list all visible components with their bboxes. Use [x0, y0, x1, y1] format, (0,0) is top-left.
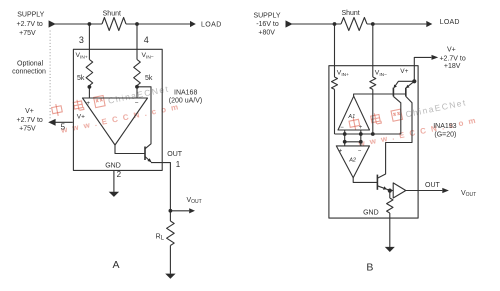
- svg-text:+80V: +80V: [258, 29, 275, 36]
- svg-text:V+: V+: [77, 114, 85, 121]
- svg-text:+: +: [359, 125, 363, 131]
- svg-text:+2.7V to: +2.7V to: [439, 55, 465, 62]
- svg-text:A1: A1: [347, 114, 355, 120]
- svg-text:A: A: [112, 259, 119, 271]
- svg-text:GND: GND: [363, 210, 379, 217]
- svg-text:connection: connection: [12, 69, 46, 76]
- svg-text:VOUT: VOUT: [187, 197, 202, 205]
- svg-text:OUT: OUT: [167, 151, 183, 158]
- svg-text:VIN+: VIN+: [337, 69, 349, 78]
- svg-text:LOAD: LOAD: [440, 19, 460, 26]
- svg-text:(G=20): (G=20): [434, 131, 456, 138]
- svg-text:Shunt: Shunt: [103, 10, 121, 17]
- svg-text:−: −: [340, 125, 344, 131]
- svg-text:−: −: [135, 100, 139, 107]
- svg-text:OUT: OUT: [425, 182, 441, 189]
- svg-text:+2.7V to: +2.7V to: [17, 117, 43, 124]
- svg-text:+: +: [339, 148, 343, 154]
- svg-text:SUPPLY: SUPPLY: [253, 12, 280, 19]
- svg-text:(200 uA/V): (200 uA/V): [169, 97, 202, 104]
- svg-text:−: −: [358, 148, 362, 154]
- svg-text:5k: 5k: [145, 75, 153, 82]
- svg-text:V+: V+: [400, 68, 408, 75]
- svg-text:+18V: +18V: [444, 63, 461, 70]
- svg-text:INA193: INA193: [433, 123, 456, 130]
- svg-text:+2.7V to: +2.7V to: [17, 21, 43, 28]
- svg-text:4: 4: [144, 35, 149, 45]
- svg-text:Shunt: Shunt: [341, 10, 359, 17]
- svg-text:5: 5: [61, 123, 66, 132]
- svg-text:2: 2: [117, 170, 122, 179]
- svg-text:Optional: Optional: [17, 60, 44, 67]
- svg-text:INA168: INA168: [174, 89, 197, 96]
- svg-text:V+: V+: [447, 46, 456, 53]
- svg-text:VIN−: VIN−: [375, 69, 387, 78]
- svg-text:RL: RL: [156, 233, 165, 241]
- svg-text:-16V to: -16V to: [256, 21, 279, 28]
- svg-text:GND: GND: [105, 162, 121, 169]
- svg-text:1: 1: [176, 160, 181, 169]
- svg-text:5k: 5k: [77, 75, 85, 82]
- svg-text:+75V: +75V: [19, 125, 36, 132]
- svg-text:V+: V+: [25, 108, 34, 115]
- svg-text:+75V: +75V: [19, 30, 36, 37]
- svg-text:3: 3: [79, 35, 84, 45]
- svg-text:+: +: [86, 100, 90, 107]
- svg-text:SUPPLY: SUPPLY: [17, 12, 44, 19]
- svg-text:VIN+: VIN+: [76, 52, 88, 61]
- svg-text:B: B: [366, 262, 373, 274]
- svg-text:VIN−: VIN−: [142, 52, 154, 61]
- svg-text:VOUT: VOUT: [461, 190, 476, 198]
- svg-text:A2: A2: [348, 158, 356, 164]
- svg-text:LOAD: LOAD: [201, 22, 222, 29]
